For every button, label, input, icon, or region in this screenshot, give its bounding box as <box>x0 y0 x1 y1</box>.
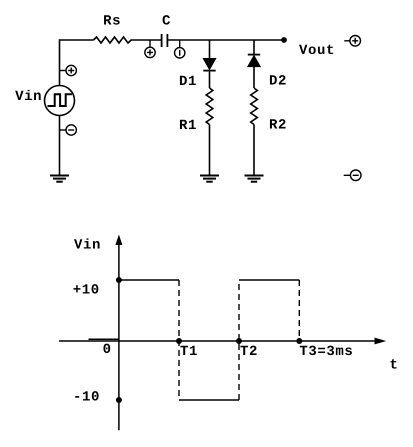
wire Rs to C <box>133 39 162 41</box>
waveform segment 0 to T1 (+10) <box>119 279 179 281</box>
marker - (Vin bottom) <box>60 125 77 135</box>
wire top to D2 <box>253 40 255 55</box>
wire R2 to ground <box>253 125 255 176</box>
svg-text:D2: D2 <box>269 73 287 89</box>
polarity marker - (capacitor right plate) <box>175 40 185 58</box>
svg-text:R2: R2 <box>269 118 287 134</box>
svg-text:Rs: Rs <box>103 13 121 29</box>
svg-text:T2: T2 <box>240 344 258 360</box>
node dot -10 <box>116 397 122 403</box>
ground (Vin) <box>50 176 69 182</box>
wire D1 to R1 <box>209 71 211 88</box>
wire D2 to R2 <box>253 67 255 88</box>
diode D2 <box>248 55 260 67</box>
svg-text:D1: D1 <box>179 74 197 90</box>
marker + (Vin top) <box>60 65 77 75</box>
node dot +10 <box>116 277 122 283</box>
svg-text:Vin: Vin <box>15 89 42 105</box>
svg-text:-10: -10 <box>73 390 100 406</box>
svg-text:0: 0 <box>103 342 112 358</box>
waveform segment T2 to T3 (+10) <box>239 279 299 281</box>
wire Vin top lead to Rs <box>60 40 94 86</box>
waveform segment t<0 (0V level) <box>89 338 119 340</box>
svg-text:+10: +10 <box>73 283 100 299</box>
capacitor C <box>162 34 168 47</box>
svg-text:T3=3ms: T3=3ms <box>299 344 353 360</box>
dashed transition at T1 <box>178 280 180 400</box>
resistor R2 <box>251 88 258 125</box>
svg-text:Vin: Vin <box>74 238 101 254</box>
source Vin <box>45 86 75 116</box>
wire top to D1 <box>209 40 211 59</box>
node dot T3 <box>296 338 302 344</box>
ground (R1) <box>200 176 219 182</box>
svg-text:t: t <box>390 357 399 373</box>
resistor R1 <box>206 88 213 125</box>
ground (R2) <box>245 176 264 182</box>
dashed transition at T2 <box>238 280 240 400</box>
wire C to Vout node <box>167 39 284 41</box>
wire R1 to ground <box>209 125 211 176</box>
y-axis <box>115 235 122 431</box>
node dot T2 <box>236 338 242 344</box>
svg-text:R1: R1 <box>179 118 197 134</box>
node Vout <box>281 37 287 43</box>
svg-text:Vout: Vout <box>299 43 335 59</box>
waveform segment T1 to T2 (-10) <box>179 399 239 401</box>
terminal - (bottom right) <box>344 170 361 181</box>
node dot T1 <box>176 338 182 344</box>
svg-text:C: C <box>162 13 171 29</box>
svg-text:T1: T1 <box>180 344 198 360</box>
x-axis <box>59 338 386 345</box>
wire Vin to ground <box>59 116 61 176</box>
resistor Rs <box>94 37 134 43</box>
diode D1 <box>203 59 215 71</box>
terminal + (top right) <box>344 36 360 47</box>
polarity marker + (capacitor left plate) <box>145 40 155 58</box>
dashed transition at T3 <box>298 280 300 341</box>
